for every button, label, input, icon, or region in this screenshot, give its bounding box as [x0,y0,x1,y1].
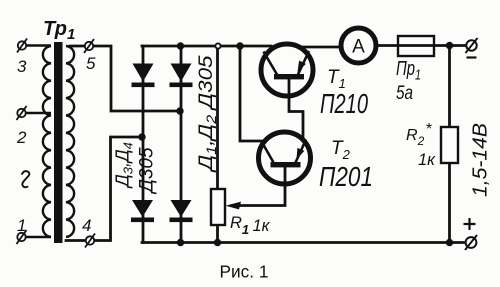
junction ring top rail / R1 column [215,43,220,48]
transistor T2 [259,132,311,184]
terminal 4 [85,234,95,248]
svg-text:П201: П201 [319,161,373,192]
wire top rail (minus bus from bridge to T1) [142,45,271,48]
svg-text:4: 4 [82,216,91,235]
wire ammeter to fuse to minus terminal [376,44,466,47]
wire terminal 2 tap lead [25,112,51,114]
wire T1 emitter to ammeter [298,46,341,49]
fuse Pr1 [398,36,434,56]
terminal minus output [466,38,478,58]
wire right column to R2 [448,46,451,128]
svg-text:А: А [352,37,365,58]
wire T2 base to R1 wiper [232,168,285,206]
svg-text:Д1,Д2 Д305: Д1,Д2 Д305 [195,55,219,172]
diode D4 (bottom, column 2) [170,200,193,222]
svg-text:1к: 1к [253,217,271,235]
wire terminal 1 lead [25,236,51,238]
junction node terminal4 branch / column 1 [138,133,145,140]
junction node terminal5 branch / column 2 [176,107,183,114]
ammeter A [341,28,376,63]
wire T2 collector branch [240,46,264,141]
svg-text:1: 1 [17,216,26,235]
svg-text:1к: 1к [418,151,436,169]
wire terminal 3 lead [25,44,51,46]
svg-text:Д305: Д305 [137,147,158,195]
diode D1 (top, column 1) [132,64,155,88]
junction bottom rail / column 2 [177,239,184,246]
svg-text:П210: П210 [320,88,368,119]
wire T1 base to T2 emitter [289,80,303,142]
svg-text:2: 2 [16,128,27,147]
wire R1 bottom lead [216,225,219,243]
transformer Tr1 primary winding [43,46,51,237]
wire secondary terminal 5 branch to bridge node [70,46,180,111]
wire diode column 1 [142,46,145,243]
wire R2 to plus rail [448,163,451,243]
terminal plus output [464,218,478,250]
terminal 1 [17,230,27,244]
transistor T1 [261,44,313,96]
svg-text:1,5-14В: 1,5-14В [470,123,492,197]
svg-text:5: 5 [86,54,96,73]
junction top rail / column 2 [177,42,184,49]
wire R1 column [216,46,219,189]
terminal 2 [17,106,27,120]
wire bottom plus rail [142,241,466,244]
junction top rail / T2 branch [236,42,243,49]
primary tap squiggle mark [22,171,29,187]
junction bottom right / R2 to plus [446,239,453,246]
resistor R2 [441,127,458,163]
junction bottom rail / R1 [214,239,221,246]
diode D3 (bottom, column 1) [131,200,154,222]
potentiometer R1 wiper arrow [226,202,242,210]
wire secondary terminal 4 branch to bridge node [66,137,142,241]
wire diode column 2 [180,46,183,243]
svg-text:Рис. 1: Рис. 1 [220,262,269,282]
terminal 3 [17,39,27,53]
transformer Tr1 core [54,42,63,243]
terminal 5 [84,39,94,53]
transformer Tr1 secondary winding [66,46,74,237]
svg-text:5а: 5а [396,83,413,104]
svg-text:3: 3 [17,57,27,76]
diode D2 (top, column 2) [170,64,193,88]
junction top right / fuse to minus [446,42,453,49]
potentiometer R1 [211,189,225,225]
